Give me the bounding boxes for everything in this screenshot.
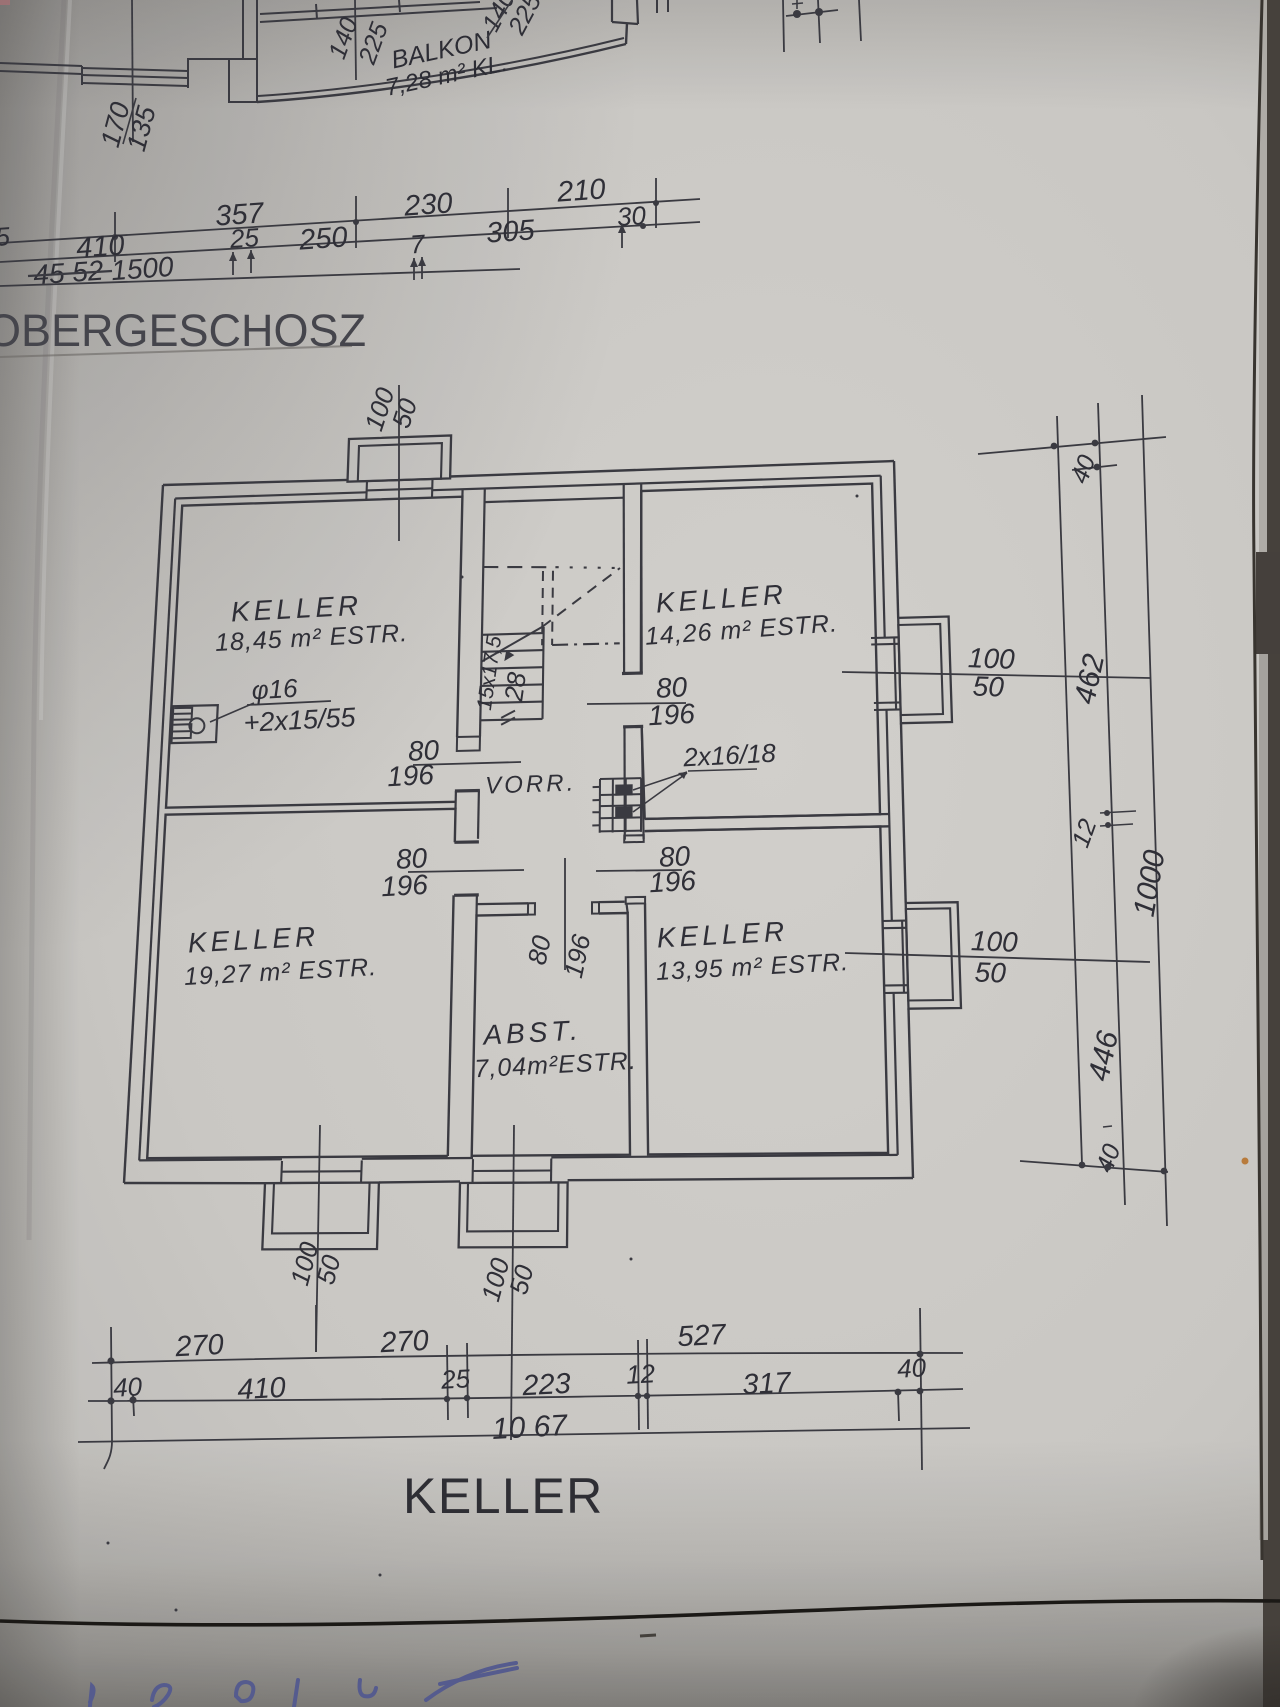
door D1 label <box>386 734 521 792</box>
door D2 label <box>587 671 696 731</box>
svg-text:+2x15/55: +2x15/55 <box>243 702 357 738</box>
label KELLER 18,45 <box>214 590 408 657</box>
bottom dim row1 <box>92 1319 963 1365</box>
balcony dim2 140/225 <box>477 0 547 40</box>
chimney leader lines <box>633 769 757 812</box>
window W1 top niche <box>348 436 452 501</box>
right dim 40 bottom <box>1091 1126 1127 1176</box>
svg-text:196: 196 <box>386 759 435 792</box>
svg-text:25: 25 <box>228 222 260 254</box>
room KELLER 14,26 outline <box>641 484 880 819</box>
right edge dark margin <box>1263 0 1280 1707</box>
svg-text:196: 196 <box>380 869 429 902</box>
stair shaft top line <box>485 498 624 502</box>
top dim cross marks <box>783 0 861 52</box>
upper window rect <box>612 0 668 24</box>
upper wall corner <box>188 58 229 71</box>
upper dim row3 <box>0 251 520 291</box>
svg-text:50: 50 <box>972 670 1005 702</box>
door D3 jambs <box>624 835 645 904</box>
upper dim row2 <box>0 214 700 280</box>
right edge paper sliver <box>1259 0 1268 1540</box>
paper specks <box>107 495 859 1612</box>
svg-text:270: 270 <box>174 1329 225 1364</box>
svg-text:270: 270 <box>379 1325 430 1360</box>
stair dashdot line <box>552 643 620 645</box>
svg-text:φ16: φ16 <box>251 673 299 705</box>
drain label phi16 <box>251 673 299 705</box>
right edge dark bulge <box>1256 552 1280 654</box>
window W4 dim <box>845 925 1150 988</box>
svg-text:223: 223 <box>521 1368 572 1403</box>
upper plan left wall <box>0 63 188 88</box>
upper dim row1 <box>0 173 700 262</box>
svg-text:1500: 1500 <box>110 251 175 286</box>
bottom right dark corner <box>1000 1540 1280 1707</box>
drain leader <box>210 701 331 722</box>
room KELLER 13,95 outline <box>645 827 888 1155</box>
svg-text:196: 196 <box>647 698 696 731</box>
door D5 dim line <box>522 858 597 980</box>
bottom dim row3 <box>78 1409 970 1446</box>
svg-text:KELLER: KELLER <box>403 1468 604 1524</box>
drain symbol <box>171 705 217 743</box>
room KELLER 18,45 outline <box>166 497 462 808</box>
right dim vertical lines <box>1057 395 1167 1226</box>
stair equals mark <box>501 711 515 725</box>
balcony door jamb <box>229 0 257 102</box>
svg-text:100: 100 <box>970 925 1018 958</box>
crease top-left <box>29 0 70 1240</box>
abst top wall corridor face <box>477 902 625 904</box>
room ABST outline <box>472 913 630 1156</box>
balcony top wall lines <box>260 0 497 22</box>
stair label 28 <box>498 670 532 704</box>
door D4 label <box>380 842 524 902</box>
chimney 2x16/18 <box>592 778 641 833</box>
right dim 462 <box>1068 651 1111 707</box>
svg-text:40: 40 <box>896 1352 927 1384</box>
label VORR <box>485 769 577 799</box>
stair walking line <box>481 568 620 662</box>
right dim 446 <box>1082 1028 1125 1084</box>
window W5 dim <box>284 1125 346 1352</box>
window W1 dim <box>358 383 423 541</box>
window W6 niche <box>459 1159 568 1248</box>
svg-text:12: 12 <box>625 1358 656 1390</box>
right dim top tick <box>978 437 1166 487</box>
stair label 15x17,5 <box>473 634 506 712</box>
door D3 label <box>596 840 697 898</box>
right dim 12 ticks <box>1067 810 1136 851</box>
blue scribble <box>90 1663 517 1707</box>
svg-text:317: 317 <box>742 1367 794 1402</box>
window W3 dim <box>842 642 1150 702</box>
svg-text:50: 50 <box>974 956 1007 988</box>
right dim bottom tick <box>1020 1161 1168 1174</box>
corridor right wall <box>624 483 644 913</box>
svg-text:25: 25 <box>439 1363 471 1395</box>
obergeschosz title <box>0 305 366 356</box>
svg-text:VORR.: VORR. <box>485 769 577 799</box>
stair dashed top line <box>483 567 620 568</box>
balcony outline <box>257 23 627 102</box>
upper dim 170/135 <box>95 0 162 154</box>
window W6 dim <box>475 1125 539 1440</box>
svg-text:28: 28 <box>498 670 532 704</box>
keller title <box>403 1468 604 1524</box>
svg-text:196: 196 <box>648 865 697 898</box>
door D2 jambs <box>622 673 643 727</box>
svg-text:230: 230 <box>402 187 454 222</box>
corridor left wall <box>456 489 485 916</box>
room KELLER 19,27 outline <box>147 809 455 1158</box>
door D5 jambs <box>528 902 599 915</box>
right rooms divider wall <box>645 814 890 831</box>
drain label 2x15 <box>243 702 357 738</box>
svg-text:527: 527 <box>677 1319 729 1354</box>
svg-text:410: 410 <box>237 1372 287 1406</box>
svg-text:OBERGESCHOSZ: OBERGESCHOSZ <box>0 305 366 356</box>
paper edge jagged line <box>1254 0 1262 1560</box>
right dim 1000 <box>1128 847 1172 919</box>
sheet edge under title <box>0 0 352 357</box>
inner wall line <box>139 476 898 1161</box>
label KELLER 14,26 <box>644 578 839 650</box>
label KELLER 19,27 <box>183 921 377 991</box>
svg-text:250: 250 <box>297 221 349 256</box>
door D1 jambs <box>455 737 480 792</box>
balkon label <box>383 26 510 102</box>
stair dashed shaft <box>542 571 553 646</box>
svg-text:40: 40 <box>112 1371 143 1403</box>
chimney label 2x16/18 <box>682 738 778 773</box>
label KELLER 13,95 <box>655 916 849 986</box>
window W4 niche <box>882 902 961 1009</box>
svg-text:210: 210 <box>555 173 607 208</box>
svg-text:10 67: 10 67 <box>491 1409 569 1446</box>
outer wall boundary <box>124 461 913 1183</box>
door D4 jambs <box>454 842 479 895</box>
window W3 niche <box>871 617 952 724</box>
balcony dim 140/225 <box>323 0 394 80</box>
label ABST <box>474 1014 638 1083</box>
small dash below line <box>640 1635 656 1636</box>
bottom black line <box>0 1601 1280 1625</box>
stair treads <box>480 627 543 721</box>
window W5 niche <box>262 1160 379 1249</box>
svg-text:305: 305 <box>485 214 536 249</box>
orange speck <box>1242 1158 1249 1165</box>
svg-text:2x16/18: 2x16/18 <box>682 738 778 773</box>
bottom dim vertical lines <box>104 1305 922 1470</box>
svg-text:ABST.: ABST. <box>481 1014 583 1050</box>
bottom dim row2 <box>88 1352 963 1406</box>
